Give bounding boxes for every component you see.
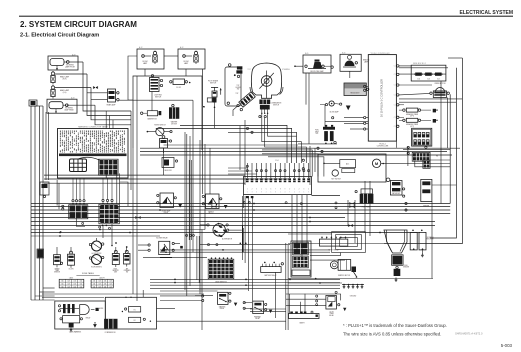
svg-text:7: 7 <box>275 189 276 191</box>
svg-text:0: 0 <box>289 189 290 191</box>
svg-text:6: 6 <box>303 191 304 193</box>
svg-text:ROOM: ROOM <box>143 61 149 63</box>
svg-text:WORKING: WORKING <box>66 65 75 67</box>
svg-text:2: 2 <box>299 189 300 191</box>
svg-text:4: 4 <box>261 189 262 191</box>
svg-text:5: 5 <box>266 189 267 191</box>
svg-text:HARNESS CONNECTOR TABLE: HARNESS CONNECTOR TABLE <box>78 125 108 128</box>
svg-text:FUSE TABLE: FUSE TABLE <box>82 272 95 275</box>
svg-text:STEERING: STEERING <box>282 69 291 71</box>
svg-text:10 10 PULS+1 C CONTROLLER: 10 10 PULS+1 C CONTROLLER <box>380 79 384 117</box>
svg-text:1: 1 <box>280 191 281 193</box>
svg-text:MOTOR: MOTOR <box>171 123 177 125</box>
svg-text:FUEL: FUEL <box>114 268 118 270</box>
svg-text:2-1. Electrical Circuit Diagra: 2-1. Electrical Circuit Diagram <box>20 33 99 39</box>
svg-text:SENSOR: SENSOR <box>112 270 118 272</box>
svg-text:(OPT): (OPT) <box>410 116 414 118</box>
svg-text:5-003: 5-003 <box>501 343 513 348</box>
svg-text:B-05: B-05 <box>305 53 308 55</box>
svg-text:HORN: HORN <box>99 308 103 310</box>
svg-text:G4R5-M0971-A-K6T2.0: G4R5-M0971-A-K6T2.0 <box>455 332 483 336</box>
svg-text:HOUR METER: HOUR METER <box>92 253 102 255</box>
svg-text:RESISTOR: RESISTOR <box>426 239 433 241</box>
svg-text:SWITCH: SWITCH <box>155 96 162 98</box>
svg-text:0: 0 <box>247 191 248 193</box>
svg-text:GROUND: GROUND <box>350 296 356 298</box>
svg-text:3: 3 <box>299 191 300 193</box>
svg-text:9: 9 <box>285 189 286 191</box>
svg-text:R2: R2 <box>134 320 136 322</box>
svg-text:WIPER MOTOR: WIPER MOTOR <box>435 83 447 85</box>
svg-text:* : PLUS+1™ is trademark of th: * : PLUS+1™ is trademark of the Sauer-Da… <box>343 323 447 328</box>
svg-text:ROOM: ROOM <box>184 61 190 63</box>
svg-text:TILT: TILT <box>237 85 240 87</box>
svg-text:2. SYSTEM CIRCUIT DIAGRAM: 2. SYSTEM CIRCUIT DIAGRAM <box>20 20 137 29</box>
svg-text:OIL SW: OIL SW <box>69 268 75 270</box>
svg-text:SHUT: SHUT <box>315 131 319 133</box>
svg-text:C1: C1 <box>394 117 396 119</box>
svg-text:6: 6 <box>270 189 271 191</box>
svg-text:3: 3 <box>256 189 257 191</box>
svg-text:SWITCH: SWITCH <box>273 104 279 106</box>
svg-text:1: 1 <box>247 189 248 191</box>
svg-text:5: 5 <box>270 191 271 193</box>
svg-text:HOUR METER 2: HOUR METER 2 <box>91 266 102 268</box>
svg-text:KEY SWITCH: KEY SWITCH <box>331 179 340 181</box>
svg-text:SWITCH: SWITCH <box>210 82 217 84</box>
svg-text:(L.H): (L.H) <box>63 92 67 94</box>
svg-text:F/B: F/B <box>436 156 438 158</box>
svg-text:6: 6 <box>256 191 257 193</box>
svg-text:(R.H): (R.H) <box>63 78 67 80</box>
svg-text:LIGHTING: LIGHTING <box>154 95 162 97</box>
svg-text:RESISTOR: RESISTOR <box>164 170 171 172</box>
svg-text:8: 8 <box>280 189 281 191</box>
svg-text:* PLUS+1 CONTROLLER: * PLUS+1 CONTROLLER <box>370 53 390 55</box>
svg-text:4: 4 <box>308 189 309 191</box>
svg-text:C1: C1 <box>394 95 396 97</box>
svg-text:The wire size is AVS 0.85 unle: The wire size is AVS 0.85 unless otherwi… <box>343 332 441 337</box>
svg-text:COMPRESSOR: COMPRESSOR <box>105 332 117 334</box>
svg-text:3: 3 <box>303 189 304 191</box>
svg-text:C1: C1 <box>394 66 396 68</box>
svg-text:R1: R1 <box>134 310 136 312</box>
svg-text:CONTROLLER: CONTROLLER <box>377 145 389 147</box>
svg-text:TILT: TILT <box>248 69 251 71</box>
svg-text:C1: C1 <box>394 105 396 107</box>
svg-text:B-06: B-06 <box>342 52 345 54</box>
svg-text:HORN SWITCH: HORN SWITCH <box>154 124 166 126</box>
svg-text:C1: C1 <box>394 126 396 128</box>
svg-text:C1: C1 <box>394 74 396 76</box>
svg-text:FUEL: FUEL <box>315 130 319 132</box>
svg-text:TEMP: TEMP <box>55 270 59 272</box>
svg-text:7: 7 <box>289 191 290 193</box>
svg-text:ELECTRICAL SYSTEM: ELECTRICAL SYSTEM <box>459 10 513 16</box>
svg-text:SENDER: SENDER <box>403 267 409 269</box>
svg-text:WORKING: WORKING <box>65 108 74 110</box>
svg-text:TILT: TILT <box>236 93 239 95</box>
svg-text:1: 1 <box>294 189 295 191</box>
svg-text:2: 2 <box>252 189 253 191</box>
svg-text:CN-1: CN-1 <box>275 160 279 162</box>
svg-text:C1: C1 <box>394 85 396 87</box>
svg-text:9: 9 <box>261 191 262 193</box>
svg-text:FUSE BOX NO.2: FUSE BOX NO.2 <box>413 63 426 65</box>
svg-text:UNIT: UNIT <box>114 272 117 274</box>
svg-text:SOL: SOL <box>315 133 318 135</box>
svg-text:SENSOR: SENSOR <box>54 272 60 274</box>
svg-text:(OPT): (OPT) <box>410 126 414 128</box>
